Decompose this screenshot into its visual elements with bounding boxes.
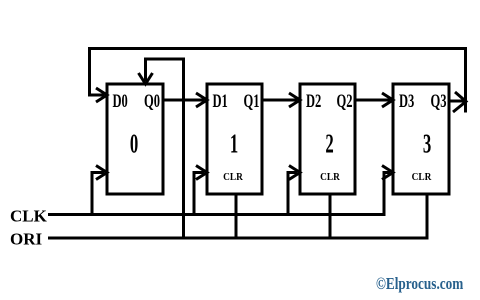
svg-text:D2: D2 <box>306 92 321 112</box>
svg-text:Q0: Q0 <box>144 92 160 112</box>
svg-text:©Elprocus.com: ©Elprocus.com <box>376 275 464 294</box>
svg-text:D3: D3 <box>399 92 414 112</box>
svg-text:Q1: Q1 <box>244 92 260 112</box>
svg-text:CLR: CLR <box>320 171 340 183</box>
svg-text:2: 2 <box>325 128 333 158</box>
svg-text:3: 3 <box>423 128 431 158</box>
svg-text:CLK: CLK <box>10 207 48 226</box>
svg-text:1: 1 <box>230 128 238 158</box>
svg-text:CLR: CLR <box>412 171 432 183</box>
svg-text:D1: D1 <box>213 92 228 112</box>
svg-text:Q2: Q2 <box>337 92 353 112</box>
svg-text:0: 0 <box>130 128 138 158</box>
svg-text:ORI: ORI <box>10 230 43 249</box>
svg-text:Q3: Q3 <box>431 92 447 112</box>
svg-text:D0: D0 <box>113 92 128 112</box>
svg-text:CLR: CLR <box>223 171 243 183</box>
